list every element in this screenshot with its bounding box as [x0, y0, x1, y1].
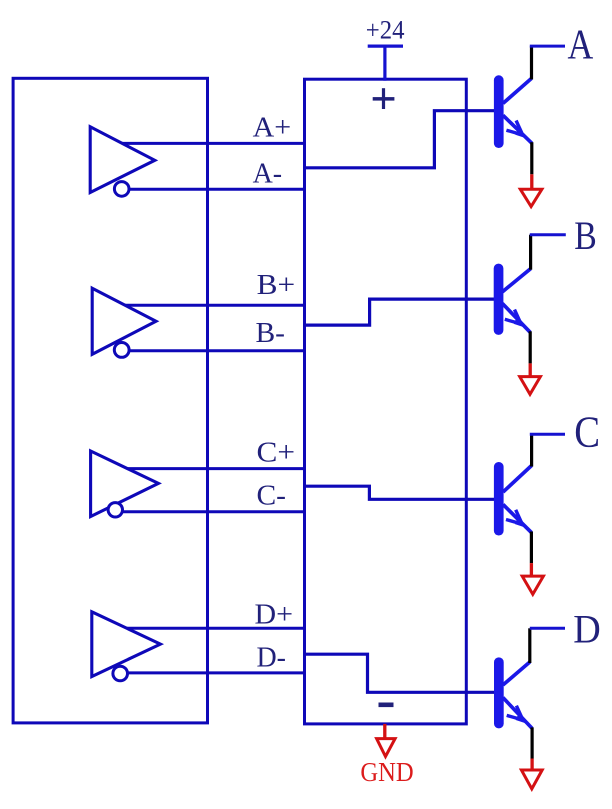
svg-text:B: B: [574, 213, 597, 258]
transistor Q2 emitter stroke: [502, 303, 530, 332]
wire emitter B (black): [529, 331, 532, 363]
wire emitter D (red stub): [530, 759, 533, 771]
svg-text:D+: D+: [255, 599, 294, 631]
transistor Q2 emitter arrow: [505, 310, 525, 328]
wire emitter C (red stub): [530, 563, 533, 577]
svg-text:A: A: [568, 22, 594, 68]
inverting bubble U1D: [113, 666, 128, 681]
inverting bubble U1C: [108, 503, 122, 517]
wire base drive B: [305, 299, 496, 325]
svg-text:C+: C+: [257, 437, 296, 469]
transistor Q1 emitter arrow: [506, 121, 526, 139]
wire collector A (black): [530, 46, 533, 79]
wire emitter A (red stub): [530, 174, 533, 189]
wire base drive D: [305, 654, 496, 692]
wire +24 to terminal block: [383, 46, 386, 81]
svg-text:A-: A-: [253, 158, 283, 190]
minus terminal mark: [379, 703, 394, 708]
wire D-: [120, 671, 304, 674]
wire output D: [530, 627, 565, 630]
terminal block J1: [305, 79, 467, 724]
svg-text:GND: GND: [360, 757, 413, 787]
wire base drive C: [305, 486, 496, 499]
wire GND stub: [383, 724, 386, 738]
wire A+: [108, 142, 305, 145]
svg-text:B+: B+: [257, 269, 296, 301]
wire output C: [530, 433, 565, 436]
transistor Q1 base bar: [494, 75, 504, 148]
transistor Q4 emitter arrow: [507, 706, 527, 724]
buffer U1C: [91, 451, 159, 517]
transistor Q2 base bar: [494, 264, 504, 335]
wire emitter A (black): [530, 142, 533, 174]
wire C+: [108, 467, 305, 470]
wire A-: [122, 188, 305, 191]
wire collector C (black): [530, 434, 533, 466]
plus terminal mark: [373, 88, 395, 109]
transistor Q3 emitter arrow: [506, 510, 526, 528]
driver IC box U1: [13, 78, 207, 723]
wire emitter C (black): [530, 532, 533, 564]
wire collector D (black): [528, 628, 531, 663]
ground arrow at emitter A: [520, 189, 542, 206]
transistor Q3 emitter stroke: [503, 505, 531, 533]
transistor Q1 collector stroke: [503, 78, 532, 103]
ground arrow at emitter C: [522, 576, 543, 594]
transistor Q4 collector stroke: [503, 662, 530, 685]
wire output B: [530, 233, 566, 236]
svg-text:+24: +24: [366, 16, 405, 45]
wire B+: [108, 304, 305, 307]
inverting bubble U1B: [114, 343, 129, 358]
svg-text:C-: C-: [257, 480, 287, 512]
ground arrow at emitter D: [521, 770, 542, 789]
power +24 rail bar: [368, 44, 403, 47]
buffer U1A: [90, 127, 155, 193]
svg-text:C: C: [574, 408, 600, 457]
transistor Q3 collector stroke: [503, 466, 531, 493]
svg-text:D-: D-: [257, 642, 287, 674]
svg-text:A+: A+: [253, 111, 292, 143]
wire C-: [115, 510, 304, 513]
ground symbol GND arrow: [377, 739, 396, 757]
svg-text:D: D: [573, 607, 601, 652]
wire emitter D (black): [530, 727, 533, 758]
buffer U1D: [92, 612, 161, 677]
svg-text:B-: B-: [256, 317, 286, 349]
transistor Q4 base bar: [494, 657, 504, 728]
wire emitter B (red stub): [529, 363, 532, 377]
wire base drive A: [305, 111, 496, 168]
inverting bubble U1A: [114, 182, 129, 197]
wire collector B (black): [529, 235, 532, 270]
buffer U1B: [92, 288, 156, 354]
transistor Q3 base bar: [494, 462, 504, 536]
transistor Q2 collector stroke: [502, 269, 530, 292]
transistor Q4 emitter stroke: [503, 698, 532, 729]
wire D+: [108, 627, 305, 630]
wire B-: [122, 349, 305, 352]
wire output A: [530, 45, 565, 48]
transistor Q1 emitter stroke: [503, 115, 532, 143]
ground arrow at emitter B: [520, 377, 541, 395]
